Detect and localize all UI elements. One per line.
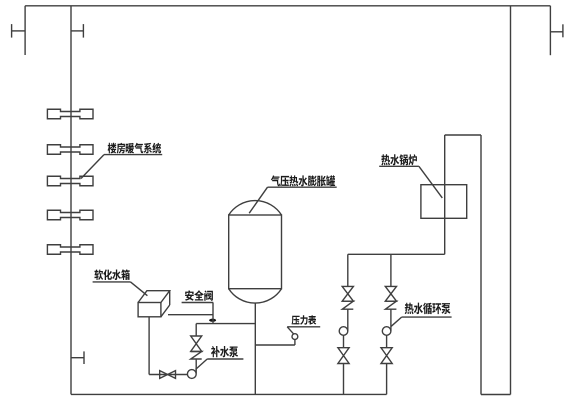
valve circulation left upper (globe)	[342, 286, 353, 301]
pipe break symbol left stub	[12, 24, 26, 37]
radiator 3	[47, 176, 93, 186]
wire pump inlet left	[347, 309, 349, 331]
valve makeup (globe)	[191, 336, 202, 351]
label: building heating system (楼房暖气系统)	[81, 143, 162, 179]
wire pump discharge header	[348, 253, 445, 255]
wire return riser right	[510, 6, 512, 395]
wire circulation branch left top	[347, 254, 349, 286]
wire gauge branch	[255, 344, 295, 346]
expansion tank vessel	[229, 201, 282, 304]
wire safety discharge to tank	[168, 314, 213, 316]
valve makeup Z-seat	[191, 352, 202, 360]
safety valve (filled)	[209, 319, 216, 322]
wire boiler feed pipe	[444, 135, 446, 254]
valve circulation left lower (gate)	[338, 348, 349, 364]
wire makeup suction pipe	[149, 374, 187, 376]
label: pressure gauge (压力表)	[287, 315, 320, 334]
wire tank bottom outlet	[148, 317, 150, 375]
radiator 4	[47, 210, 93, 220]
wire expansion tank riser	[254, 303, 256, 394]
label: pneumatic hot-water expansion tank (气压热水膨胀罐)	[249, 175, 337, 213]
pipe break symbol right stub	[550, 24, 563, 37]
wire supply bottom right	[481, 394, 511, 396]
wire safety valve discharge / leader	[212, 303, 214, 324]
label: water replenishing pump (补水泵)	[196, 346, 244, 370]
wire makeup riser	[195, 324, 197, 336]
wire circulation branch left bottom	[343, 364, 345, 395]
radiator 2	[47, 145, 93, 155]
wire pump outlet right	[386, 335, 388, 347]
softened water tank (3D box)	[138, 291, 170, 317]
wire circulation branch right bottom	[386, 364, 388, 395]
wire left supply stub	[24, 6, 26, 55]
valve makeup suction (gate)	[160, 371, 176, 379]
wire boiler supply top	[445, 134, 481, 136]
pressure gauge dial	[292, 334, 298, 340]
pipe break symbol riser bottom	[71, 351, 84, 364]
pump circulation right	[382, 327, 391, 336]
pump circulation left	[339, 327, 348, 336]
valve circulation left upper Z-seat	[342, 301, 353, 309]
wire circulation branch right top	[390, 254, 392, 286]
wire gauge stub	[294, 339, 296, 345]
valve circulation right upper Z-seat	[385, 301, 396, 309]
label: hot water circulation pump (热水循环泵)	[391, 303, 451, 327]
boiler	[421, 185, 467, 219]
label: softened water tank (软化水箱)	[93, 269, 148, 295]
pipe break symbol riser top	[71, 24, 83, 37]
valve circulation right lower (gate)	[381, 348, 392, 364]
radiator 1	[47, 109, 93, 119]
wire makeup header	[196, 323, 255, 325]
wire radiator riser	[70, 6, 72, 395]
wire makeup pump outlet	[195, 359, 197, 373]
label: safety valve (安全阀)	[182, 290, 214, 302]
wire top supply header	[25, 5, 550, 7]
wire bottom return header	[71, 393, 387, 395]
pump makeup (water replenishing pump)	[187, 370, 196, 379]
wire right return stub	[549, 6, 551, 55]
radiator 5	[47, 245, 93, 255]
valve circulation right upper (globe)	[385, 286, 396, 301]
label: hot water boiler (热水锅炉)	[379, 154, 442, 198]
wire pump inlet right	[390, 309, 392, 331]
wire pump outlet left	[343, 335, 345, 347]
wire supply drop right	[480, 135, 482, 395]
